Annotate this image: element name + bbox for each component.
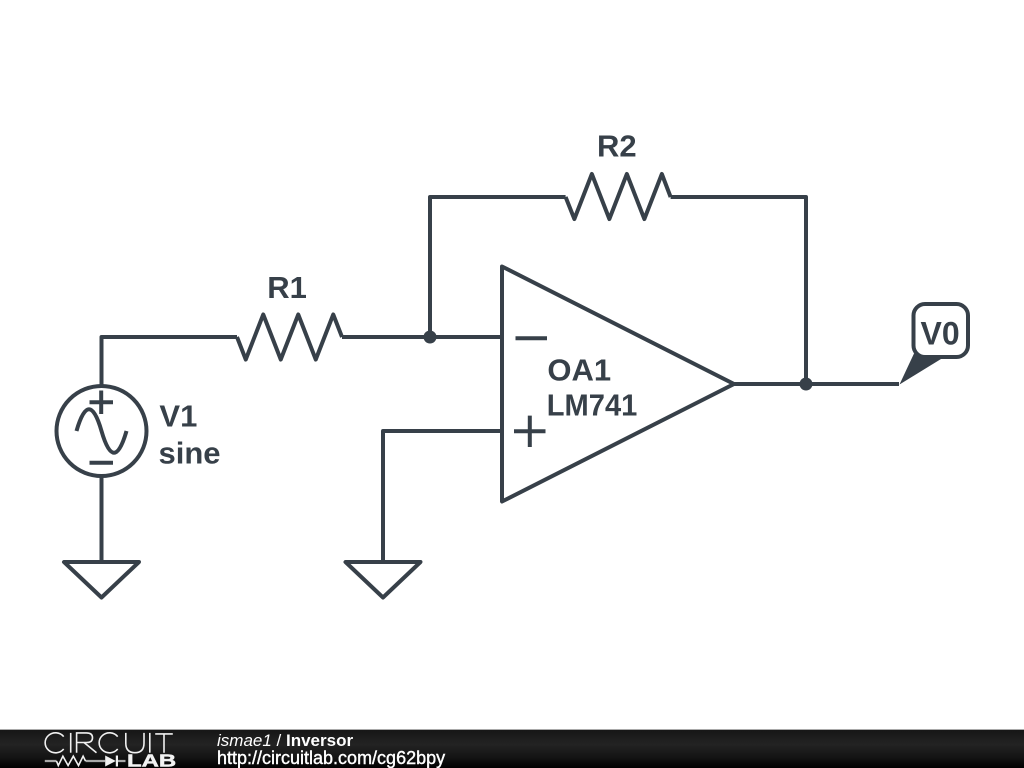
svg-text:V1: V1 (159, 399, 197, 434)
svg-text:V0: V0 (921, 316, 960, 352)
svg-text:LM741: LM741 (547, 388, 638, 423)
svg-text:sine: sine (159, 436, 221, 471)
svg-text:LAB: LAB (127, 751, 176, 768)
svg-text:OA1: OA1 (547, 353, 611, 388)
svg-text:R1: R1 (267, 270, 307, 305)
svg-text:R2: R2 (597, 129, 637, 164)
